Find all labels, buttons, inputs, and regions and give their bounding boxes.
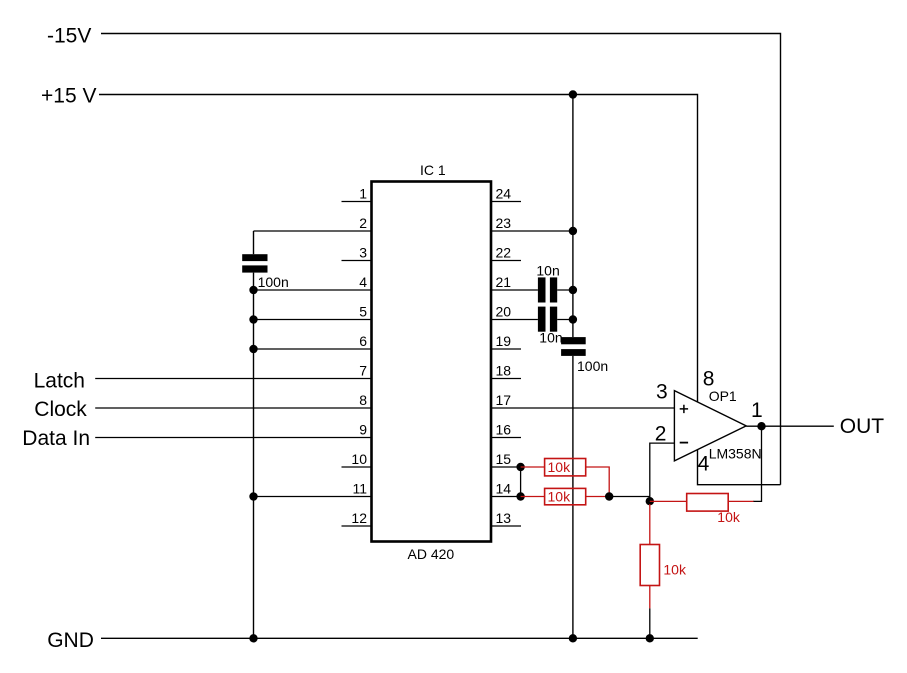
wire left decoupling rail lower xyxy=(253,273,255,639)
wire R4 bottom red xyxy=(649,586,651,609)
svg-text:100n: 100n xyxy=(577,358,608,374)
pin 2 wire xyxy=(254,230,372,232)
pin 22 stub xyxy=(491,260,521,262)
svg-text:10n: 10n xyxy=(536,263,559,279)
svg-text:LM358N: LM358N xyxy=(709,445,762,461)
svg-text:19: 19 xyxy=(496,333,512,349)
wire op-amp pin4 to -15V rail xyxy=(698,450,781,485)
capacitor C3 10n plates xyxy=(538,307,546,332)
svg-text:2: 2 xyxy=(359,215,367,231)
wire R1 right red to pin14 node xyxy=(586,467,610,497)
wire mid decoupling rail upper xyxy=(572,95,574,338)
svg-text:8: 8 xyxy=(359,392,367,408)
svg-text:10k: 10k xyxy=(548,459,572,475)
svg-text:4: 4 xyxy=(359,274,367,290)
pin 19 stub xyxy=(491,348,521,350)
wire op-amp minus input xyxy=(650,443,675,505)
pin 11 wire xyxy=(254,496,372,498)
junction C3 / mid rail xyxy=(569,315,577,323)
junction pin 14 node xyxy=(516,492,524,500)
pin 18 stub xyxy=(491,378,521,380)
IC1 AD420 body xyxy=(372,182,492,542)
resistor R1 10k (pin15) xyxy=(545,459,586,476)
svg-text:Data In: Data In xyxy=(22,427,90,450)
svg-text:3: 3 xyxy=(656,381,668,404)
wire R2 node to inverting node xyxy=(609,496,650,498)
svg-text:18: 18 xyxy=(496,363,512,379)
svg-text:2: 2 xyxy=(655,423,667,446)
resistor R3 10k feedback xyxy=(687,494,729,512)
junction rail pin11 xyxy=(249,492,257,500)
capacitor C2 10n plates xyxy=(538,277,546,302)
svg-text:10n: 10n xyxy=(539,330,562,346)
svg-text:10: 10 xyxy=(351,451,367,467)
wire +15V rail xyxy=(99,95,698,402)
pin 4 wire xyxy=(254,289,372,291)
svg-text:OUT: OUT xyxy=(840,415,885,438)
svg-text:13: 13 xyxy=(496,510,512,526)
svg-text:12: 12 xyxy=(351,510,367,526)
svg-text:+15 V: +15 V xyxy=(41,85,96,108)
pin 3 stub xyxy=(342,260,372,262)
svg-text:8: 8 xyxy=(703,367,715,390)
resistor R2 10k (pin14) xyxy=(545,488,586,504)
wire pin15-pin14 link xyxy=(520,467,522,497)
svg-text:5: 5 xyxy=(359,304,367,320)
op-amp minus input symbol xyxy=(680,442,688,444)
pin 1 stub xyxy=(342,201,372,203)
svg-text:24: 24 xyxy=(496,186,512,202)
pin 14 wire xyxy=(491,496,521,498)
pin 6 wire xyxy=(254,348,372,350)
wire R3 left red xyxy=(650,500,687,502)
pin 9 wire Data In xyxy=(95,437,371,439)
svg-text:17: 17 xyxy=(496,392,512,408)
pin 8 wire Clock xyxy=(95,407,371,409)
junction R1/R2 node xyxy=(605,492,613,500)
svg-text:100n: 100n xyxy=(258,274,289,290)
junction output node xyxy=(757,422,765,430)
junction C1 rail pin4 xyxy=(249,286,257,294)
pin 23 wire xyxy=(491,230,573,232)
svg-text:10k: 10k xyxy=(663,561,687,577)
svg-text:Clock: Clock xyxy=(34,398,87,421)
wire GND rail xyxy=(101,637,698,639)
svg-text:GND: GND xyxy=(47,629,94,652)
svg-text:Latch: Latch xyxy=(34,369,85,392)
pin 13 stub xyxy=(491,525,521,527)
wire -15V rail xyxy=(101,34,781,485)
svg-text:IC 1: IC 1 xyxy=(420,162,446,178)
svg-text:20: 20 xyxy=(496,304,512,320)
wire R2 left red xyxy=(521,496,545,498)
pin 21 wire to C2 xyxy=(491,289,573,291)
junction pin 15 node xyxy=(516,463,524,471)
junction C2 / mid rail xyxy=(569,286,577,294)
wire output feedback drop xyxy=(753,426,762,501)
pin 15 wire xyxy=(491,466,521,468)
pin 17 wire to op-amp + input xyxy=(491,407,674,409)
svg-text:15: 15 xyxy=(496,451,512,467)
svg-text:11: 11 xyxy=(352,481,367,497)
svg-text:OP1: OP1 xyxy=(709,388,737,404)
wire R4 bottom black to GND xyxy=(649,608,651,638)
svg-text:23: 23 xyxy=(496,215,512,231)
op-amp OP1 triangle xyxy=(674,391,746,461)
wire R1 left red xyxy=(521,466,545,468)
junction +15V / mid rail xyxy=(569,90,577,98)
resistor R4 10k to ground xyxy=(640,545,659,586)
junction rail pin6 xyxy=(249,345,257,353)
svg-text:6: 6 xyxy=(359,333,367,349)
svg-text:9: 9 xyxy=(359,422,367,438)
pin 20 wire to C3 xyxy=(491,319,573,321)
pin 16 stub xyxy=(491,437,521,439)
wire R4 top red xyxy=(649,504,651,545)
junction GND / mid rail xyxy=(569,634,577,642)
wire left decoupling rail upper xyxy=(253,231,255,254)
svg-text:22: 22 xyxy=(496,245,512,261)
svg-text:3: 3 xyxy=(359,245,367,261)
svg-text:-15V: -15V xyxy=(47,24,91,47)
svg-text:1: 1 xyxy=(359,186,367,202)
pin 10 stub xyxy=(342,466,372,468)
svg-text:16: 16 xyxy=(496,422,512,438)
junction GND / left rail xyxy=(249,634,257,642)
svg-text:7: 7 xyxy=(359,363,367,379)
junction GND / R4 xyxy=(646,634,654,642)
junction rail pin5 xyxy=(249,315,257,323)
junction inverting input node xyxy=(646,497,654,505)
capacitor C1 100n left plates xyxy=(242,254,267,261)
svg-text:AD 420: AD 420 xyxy=(408,546,455,562)
wire mid decoupling rail lower xyxy=(572,356,574,638)
pin 7 wire Latch xyxy=(95,378,371,380)
svg-text:1: 1 xyxy=(751,399,763,422)
op-amp plus input symbol xyxy=(680,405,688,413)
junction pin23 / mid rail xyxy=(569,227,577,235)
pin 12 stub xyxy=(342,525,372,527)
svg-text:10k: 10k xyxy=(548,488,572,504)
capacitor C4 100n right plates xyxy=(561,337,586,344)
pin 24 stub xyxy=(491,201,521,203)
wire output node xyxy=(746,425,834,427)
pin 5 wire xyxy=(254,319,372,321)
svg-text:14: 14 xyxy=(496,481,512,497)
wire R2 right red xyxy=(586,496,610,498)
svg-text:10k: 10k xyxy=(717,509,741,525)
svg-text:21: 21 xyxy=(496,274,512,290)
wire R3 right red xyxy=(728,500,753,502)
